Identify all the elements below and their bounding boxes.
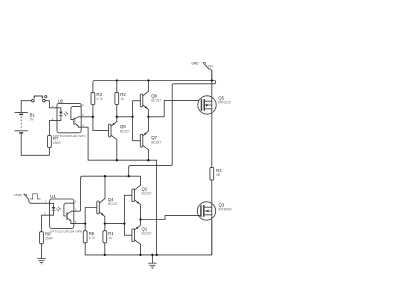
ground rail xyxy=(85,220,212,255)
wire Q5 gate drive xyxy=(148,101,201,117)
pushbutton switch xyxy=(32,96,47,102)
wire R2 bottom / Q9 emitter / net-beta xyxy=(116,105,118,122)
wire Q3 gate drive xyxy=(141,215,201,219)
svg-text:BC337: BC337 xyxy=(151,99,161,103)
svg-text:BC327: BC327 xyxy=(120,129,130,133)
svg-text:1k: 1k xyxy=(120,97,124,101)
svg-text:GND: GND xyxy=(192,62,200,66)
svg-text:IRF540N: IRF540N xyxy=(219,208,233,212)
battery B1 xyxy=(15,101,36,156)
svg-text:4R: 4R xyxy=(216,173,221,177)
transistor Q2 BC337 xyxy=(132,185,152,219)
wire U2 pin2 to R7 xyxy=(49,121,57,136)
svg-text:BC327: BC327 xyxy=(142,232,152,236)
transistor Q7 BC327 xyxy=(140,117,161,160)
input net flag LT(R) xyxy=(14,193,49,203)
supply net flag GND 24V xyxy=(192,62,215,81)
resistor R1 1k xyxy=(103,224,115,243)
svg-text:BC337: BC337 xyxy=(108,202,118,206)
svg-text:24V: 24V xyxy=(208,65,215,69)
svg-text:U1: U1 xyxy=(50,194,56,199)
ground for R8 xyxy=(37,244,45,264)
wire U1 pin2 to R8 xyxy=(42,215,50,232)
svg-text:OPTOCOUPLER NPN: OPTOCOUPLER NPN xyxy=(53,134,85,138)
wire Q8/Q7 base tie xyxy=(133,101,141,141)
transistor Q9 BC327 xyxy=(109,122,131,161)
mosfet Q5 IRF5210 xyxy=(198,71,231,168)
svg-text:BC337: BC337 xyxy=(142,192,152,196)
wire line-C to Q4 collector xyxy=(104,176,106,198)
U2 internal phototransistor xyxy=(71,106,81,119)
resistor R5 4.7k xyxy=(83,224,95,243)
pulse waveform symbol xyxy=(30,194,40,199)
wire Q2/Q1 base tie xyxy=(124,195,131,235)
optocoupler U1 xyxy=(44,194,82,233)
wire switch to U2 pin 1 xyxy=(45,101,57,108)
transistor Q8 BC337 xyxy=(140,79,161,116)
svg-text:U2: U2 xyxy=(58,98,64,103)
mosfet Q3 IRF540N xyxy=(197,180,232,255)
svg-text:1k: 1k xyxy=(108,236,112,240)
transistor Q4 BC337 xyxy=(97,197,118,224)
main ground symbol xyxy=(148,254,156,269)
resistor R2 1k xyxy=(115,81,127,105)
optocoupler U2 xyxy=(52,98,86,138)
wire battery top to switch xyxy=(21,100,31,102)
resistor R7 250R xyxy=(48,135,62,147)
wire Q4 base xyxy=(85,208,97,224)
svg-text:4.7k: 4.7k xyxy=(89,236,96,240)
svg-text:4.7k: 4.7k xyxy=(96,97,103,101)
resistor R4 xyxy=(210,167,222,180)
resistor R8 250R xyxy=(40,232,54,244)
svg-text:BC327: BC327 xyxy=(151,140,161,144)
node net-alpha: U2 pin5 / R3 / Q9 base xyxy=(81,116,93,118)
wire line-A: U2 pin4 / Q9 C / Q7 C to ground xyxy=(81,127,156,255)
wire R7 bottom rail to battery xyxy=(21,148,49,156)
wire U1 pin4 rail xyxy=(74,223,85,225)
svg-text:250R: 250R xyxy=(45,237,53,241)
U2 internal LED xyxy=(57,108,61,112)
U1 internal LED xyxy=(50,203,54,207)
svg-text:LT(R): LT(R) xyxy=(14,193,21,197)
svg-text:Q3: Q3 xyxy=(219,202,225,207)
svg-text:250R: 250R xyxy=(53,141,61,145)
resistor R3 4.7k xyxy=(91,92,103,104)
top supply bus and feed to lower stage xyxy=(93,81,216,177)
svg-text:OPTOCOUPLER NPN: OPTOCOUPLER NPN xyxy=(50,230,82,234)
node Q4 emitter / R1 rail xyxy=(105,223,125,225)
wire U1 pin5 up to line-C xyxy=(74,176,141,211)
U1 internal phototransistor xyxy=(64,203,74,216)
transistor Q1 BC327 xyxy=(132,220,152,255)
svg-text:IRF5210: IRF5210 xyxy=(218,101,231,105)
